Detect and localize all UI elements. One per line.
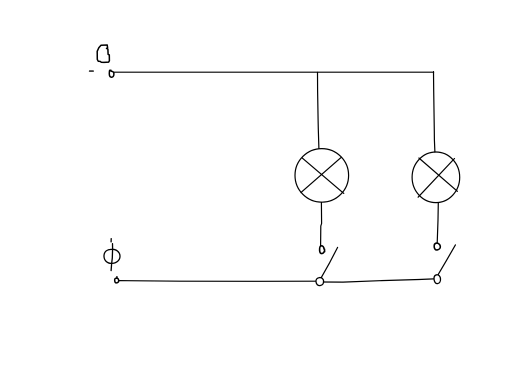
wire: right vertical drop from bus corner to lamp L2 xyxy=(434,72,435,153)
wire: lamp L2 bottom lead down to terminal xyxy=(437,203,438,244)
wire: top horizontal bus xyxy=(114,71,434,73)
terminal T3 (below lamp L2) xyxy=(434,243,440,250)
wire: lamp L1 bottom lead down to terminal xyxy=(321,202,322,245)
terminal T2 (below lamp L1) xyxy=(320,246,325,254)
terminal T1 (top-left, start of top bus) xyxy=(109,70,114,77)
indicator symbol: circle with vertical stem (bottom-left) xyxy=(104,239,120,271)
minus sign xyxy=(90,70,94,72)
wire: middle vertical drop from bus junction to lamp L1 xyxy=(318,72,319,148)
terminal T4 (bottom-left, start of bottom bus) xyxy=(115,277,119,283)
wire: bottom bus right segment (switch S1 hinge to switch S2 hinge) xyxy=(323,279,433,282)
switch S1 (open blade with hinge) xyxy=(316,247,338,285)
lamp L2 xyxy=(412,152,460,203)
switch S2 (open blade with hinge) xyxy=(434,245,455,284)
battery/source body (freehand blob) xyxy=(97,45,109,62)
lamp L1 xyxy=(295,149,349,203)
wire: bottom bus left segment (terminal T4 to switch S1 hinge) xyxy=(119,280,316,283)
